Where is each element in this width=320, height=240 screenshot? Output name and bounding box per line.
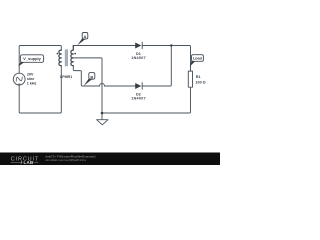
svg-text:1N4007: 1N4007 — [131, 56, 146, 60]
svg-text:Load: Load — [193, 57, 203, 61]
svg-text:100 Ω: 100 Ω — [196, 80, 206, 84]
svg-text:V_supply: V_supply — [23, 56, 42, 61]
svg-text:circuitlab.com/ce23j5a2014rw: circuitlab.com/ce23j5a2014rw — [45, 158, 87, 162]
svg-text:B: B — [90, 75, 93, 80]
svg-text:1 kHz: 1 kHz — [27, 81, 37, 85]
svg-text:R1: R1 — [196, 75, 201, 79]
svg-text:20V: 20V — [27, 72, 34, 76]
svg-text:LAB: LAB — [24, 160, 34, 165]
svg-text:A: A — [84, 34, 87, 39]
svg-text:XFMR1: XFMR1 — [60, 75, 73, 79]
svg-text:1N4007: 1N4007 — [131, 96, 146, 100]
